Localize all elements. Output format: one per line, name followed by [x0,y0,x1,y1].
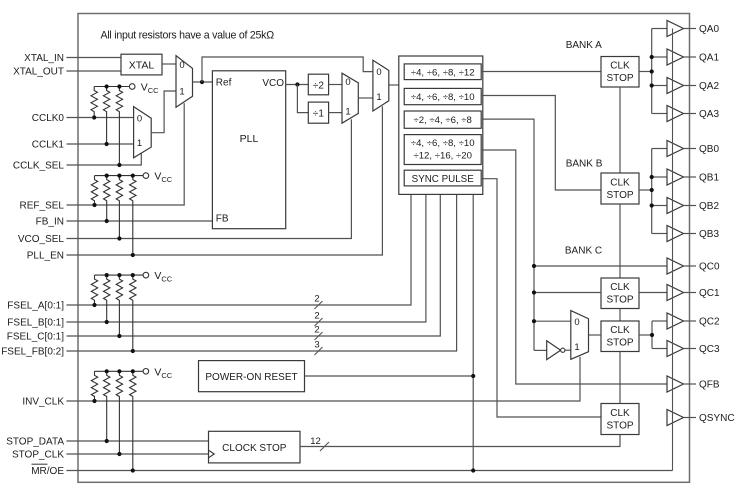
divider row B /4 /6 /8 /10 [404,88,481,104]
svg-text:XTAL_OUT: XTAL_OUT [13,67,64,78]
POWER-ON RESET block [199,361,305,392]
CLK STOP block bank A [601,57,639,88]
pin label XTAL_OUT [13,67,64,78]
resistor R-FSEL_A [91,275,97,305]
output buffer QC0 [667,258,696,274]
svg-text:FSEL_B[0:1]: FSEL_B[0:1] [7,318,64,329]
pin label QA1 [699,53,719,64]
wire /1 output to mux M2 input 1 [329,112,342,114]
output buffer QFB [667,376,696,392]
CLOCK STOP control block [209,431,301,463]
output buffer QA3 [667,106,696,122]
resistor R-FSEL_FB [130,275,136,351]
divider block /1 [308,102,328,123]
wire divider row A to CLK STOP A [481,71,601,73]
pin label QFB [699,380,720,391]
svg-text:SYNC PULSE: SYNC PULSE [412,174,475,185]
output buffer QA2 [667,78,696,94]
pin label FSEL_C[0:1] [7,332,64,343]
Vcc pull-up rail group 1 [94,82,159,96]
svg-text:QB1: QB1 [699,173,719,184]
svg-text:V: V [154,366,161,378]
pin label QB1 [699,173,719,184]
output buffer QA0 [667,21,696,37]
svg-text:Ref: Ref [216,77,232,88]
SYNC PULSE block [404,170,481,186]
wire mux M0 output to mux M1 input 1 [151,91,176,133]
wire FSEL_C to divider bank [67,194,441,336]
wire divider row C to bank C bus [481,119,534,350]
pin label QB2 [699,201,719,212]
wire CCLK_SEL to mux M0 select [67,152,142,165]
svg-text:QFB: QFB [699,380,720,391]
divider block /2 [308,74,328,95]
wire CLOCK STOP 12-bit stop bus [300,435,620,447]
svg-text:INV_CLK: INV_CLK [22,397,64,408]
resistor R-INV_CLK [91,371,97,401]
output buffer QB3 [667,226,696,242]
pin label VCO_SEL [18,234,65,245]
resistor R-FB_IN [104,176,110,221]
svg-text:CC: CC [161,371,172,380]
svg-text:QSYNC: QSYNC [699,413,735,424]
frequency divider bank outer box [399,56,483,194]
slash bus-width mark 3 on FSEL_FB [314,340,322,356]
resistor R-MR/OE [130,371,136,470]
wire XTAL_OUT to XTAL [67,70,122,72]
pin label QA3 [699,109,719,120]
wire CCLK0 to mux M0 input 0 [67,117,134,119]
svg-text:CC: CC [161,275,172,284]
pin label QA2 [699,81,719,92]
wire stop chain C2-QSYNC [619,352,621,404]
svg-text:BANK C: BANK C [565,246,602,257]
svg-text:QA2: QA2 [699,81,719,92]
svg-text:FSEL_C[0:1]: FSEL_C[0:1] [7,332,64,343]
resistor R-VCO_SEL [116,176,122,239]
Vcc pull-up rail group 2 [95,171,173,185]
wire MR/OE reset line [67,470,673,472]
wire STOP_DATA to CLOCK STOP [67,440,209,442]
bank B label [566,159,603,170]
svg-text:STOP: STOP [606,338,633,349]
output buffer QC3 [667,341,696,357]
Vcc pull-up rail group 3 [95,270,173,284]
pin label QB3 [699,229,719,240]
wire PLL bypass from Ref node to mux M3 input 0 [202,57,373,82]
resistor R-CCLK_SEL [116,87,122,166]
svg-text:QB0: QB0 [699,144,719,155]
svg-text:XTAL_IN: XTAL_IN [24,53,64,64]
node Ref junction [200,80,204,84]
junction dots group 4 [92,369,134,472]
output buffer QA1 [667,49,696,65]
svg-text:CLK: CLK [610,177,630,188]
pin label QSYNC [699,413,735,424]
svg-text:CCLK0: CCLK0 [32,113,65,124]
svg-text:FSEL_A[0:1]: FSEL_A[0:1] [7,301,64,312]
CLK STOP block QSYNC [601,404,639,435]
svg-text:÷2: ÷2 [313,81,324,92]
wire stop chain B-C1 [619,204,621,278]
CLK STOP block bank B [601,173,639,204]
slash bus-width mark 2 on FSEL_B [314,311,322,327]
bank A input bus [651,29,653,114]
svg-text:12: 12 [310,436,321,447]
pin label QC3 [699,344,720,355]
svg-text:V: V [154,171,161,183]
bank C label [565,246,602,257]
svg-text:0: 0 [345,77,350,88]
svg-text:CLK: CLK [610,408,630,419]
svg-text:V: V [154,270,161,282]
svg-text:QC1: QC1 [699,288,720,299]
svg-text:0: 0 [179,60,184,71]
output buffer QC1 [667,285,696,301]
CLK STOP block QC1 [601,278,639,309]
wire bank C bus to QC0 buffer [534,265,667,267]
pin label XTAL_IN [24,53,64,64]
output buffer QB2 [667,198,696,214]
junction dots bank C bus [532,264,536,323]
output buffer QC2 [667,313,696,329]
node QC2 QC3 junction [650,333,654,337]
svg-text:STOP: STOP [606,295,633,306]
svg-text:CLK: CLK [610,61,630,72]
svg-text:QC0: QC0 [699,262,720,273]
svg-text:FB_IN: FB_IN [36,217,64,228]
divider row FB /4../20 [404,135,481,165]
wire /2 output to mux M2 input 0 [329,84,342,86]
wire stop chain C1-C2 [619,309,621,322]
svg-text:CCLK1: CCLK1 [32,140,65,151]
wire CLK STOP QC1 to QC2... QC1 buffer [639,292,667,294]
svg-text:2: 2 [314,325,319,336]
svg-text:÷1: ÷1 [313,109,324,120]
bank A label [566,40,602,51]
svg-text:FSEL_FB[0:2]: FSEL_FB[0:2] [1,347,64,358]
wire CLK STOP QC2 output to QC2 QC3 buffers [639,321,667,349]
pin label QC0 [699,262,720,273]
Vcc pull-up rail group 4 [95,366,173,380]
wire PLL VCO output [286,84,309,86]
svg-text:QB2: QB2 [699,201,719,212]
divider row A /4 /6 /8 /12 [404,64,481,80]
wire FSEL_FB to divider bank [67,194,457,351]
resistor R-REF_SEL [91,176,97,205]
svg-text:CCLK_SEL: CCLK_SEL [13,161,65,172]
pin label FSEL_FB[0:2] [1,347,64,358]
wire FB_IN to PLL FB input [67,220,213,222]
wire POWER-ON RESET output to reset vertical [305,375,474,377]
svg-text:STOP_CLK: STOP_CLK [12,450,64,461]
wire MR/OE output-enable vertical through buffers [672,29,674,471]
junction dots bank A bus [650,55,654,88]
wire bank C bus to mux M4 input 0 [534,320,571,322]
svg-text:V: V [141,82,148,94]
wire divider row B to CLK STOP B [481,96,601,191]
junction dots bank B bus [650,175,654,208]
svg-text:MR/OE: MR/OE [31,466,64,477]
note: all input resistors 25k ohm [101,30,275,42]
svg-text:All input resistors have a val: All input resistors have a value of 25kΩ [101,30,275,42]
output buffer QSYNC [667,410,696,426]
svg-text:CLOCK STOP: CLOCK STOP [222,443,287,454]
pin label FSEL_B[0:1] [7,318,64,329]
svg-text:÷4, ÷6, ÷8, ÷10: ÷4, ÷6, ÷8, ÷10 [411,92,475,103]
svg-text:÷2, ÷4, ÷6, ÷8: ÷2, ÷4, ÷6, ÷8 [413,115,471,126]
wire VCO to divide-by-1 [297,85,308,113]
svg-text:1: 1 [376,92,381,103]
resistor R-PLL_EN [130,176,136,255]
svg-text:STOP: STOP [606,190,633,201]
svg-text:FB: FB [216,214,229,225]
svg-text:STOP: STOP [606,420,633,431]
wire SYNC PULSE to QSYNC CLK STOP [481,179,601,417]
svg-text:÷12, ÷16, ÷20: ÷12, ÷16, ÷20 [413,151,471,162]
resistor R-STOP_CLK [116,371,122,454]
node VCO junction [295,82,299,86]
pin label STOP_DATA [6,437,64,448]
svg-text:0: 0 [574,317,579,328]
wire inverter output to mux M4 input 1 [565,349,571,351]
svg-text:CC: CC [148,86,159,95]
wire CCLK1 to mux M0 input 1 [67,143,134,145]
output buffer QB0 [667,141,696,157]
junction dots group 3 [92,273,134,353]
wire mux M4 output to CLK STOP QC2 [589,334,602,336]
pin label REF_SEL [20,201,65,212]
pin label FB_IN [36,217,64,228]
outer boundary box of device [78,14,690,483]
output buffer QB1 [667,169,696,185]
wire CLK STOP B output to bank B bus [639,189,652,191]
svg-text:BANK A: BANK A [566,40,602,51]
slash bus-width mark 2 on FSEL_A [314,294,322,310]
svg-text:1: 1 [137,138,142,149]
wire mux M3 output to divider bank [389,84,399,86]
pin label CCLK_SEL [13,161,65,172]
mux M4 invert select [571,311,589,360]
wire STOP_CLK to CLOCK STOP clock input [67,453,209,455]
pin label QB0 [699,144,719,155]
svg-text:CLK: CLK [610,282,630,293]
svg-text:BANK B: BANK B [566,159,603,170]
svg-text:2: 2 [314,311,319,322]
junction dots group 2 [92,174,134,258]
wire mux M1 output to PLL Ref [193,81,213,83]
wire divider row FB to QFB buffer [481,150,667,384]
svg-text:XTAL: XTAL [129,60,155,72]
resistor R-STOP_DATA [104,371,110,441]
pin label QC1 [699,288,720,299]
wire PLL_EN to mux M3 select [67,106,383,255]
wire reset vertical from divider bank to MR line [472,194,474,470]
inverter U2 clock invert [547,341,565,360]
wire INV_CLK to mux M4 select [67,357,581,401]
pin label INV_CLK [22,397,64,408]
svg-text:÷4, ÷6, ÷8, ÷12: ÷4, ÷6, ÷8, ÷12 [411,67,475,78]
mux M0 CCLK select [134,107,152,158]
wire XTAL_IN to XTAL [67,57,122,59]
resistor R-FSEL_C [116,275,122,336]
PLL block U1 [212,71,285,229]
wire bank C bus to inverter input [534,349,547,351]
pin label CCLK1 [32,140,65,151]
resistor R-CCLK0 [91,87,97,118]
slash bus-width mark 2 on FSEL_C [314,325,322,341]
wire XTAL to mux M1 input 0 [162,63,176,65]
svg-text:STOP_DATA: STOP_DATA [6,437,64,448]
svg-text:QA3: QA3 [699,109,719,120]
svg-text:CC: CC [161,175,172,184]
wire FSEL_B to divider bank [67,194,426,322]
svg-text:3: 3 [314,340,319,351]
svg-text:QA0: QA0 [699,24,719,35]
wire mux M2 output to mux M3 input 1 [358,97,373,99]
pin label QC2 [699,317,720,328]
pin label QA0 [699,24,719,35]
wire CLK STOP A output to bank A bus [639,71,652,73]
pin label CCLK0 [32,113,65,124]
resistor R-CCLK1 [103,87,109,145]
svg-text:0: 0 [137,113,142,124]
wire VCO_SEL to mux M2 select [67,119,352,238]
wire bank C bus to CLK STOP QC1 [534,292,601,294]
svg-text:PLL_EN: PLL_EN [27,251,64,262]
resistor R-FSEL_B [104,275,110,322]
svg-text:÷4, ÷6, ÷8, ÷10: ÷4, ÷6, ÷8, ÷10 [411,138,475,149]
node MR reset junction [471,468,475,472]
divider row C /2 /4 /6 /8 [404,111,481,128]
bank B input bus [651,149,653,234]
svg-text:QC3: QC3 [699,344,720,355]
pin label FSEL_A[0:1] [7,301,64,312]
svg-text:QA1: QA1 [699,53,719,64]
slash bus-width mark 12 on stop bus [310,436,329,451]
svg-text:1: 1 [179,86,184,97]
svg-text:VCO: VCO [262,78,284,89]
svg-text:POWER-ON RESET: POWER-ON RESET [205,372,297,383]
svg-text:STOP: STOP [606,73,633,84]
mux M2 VCO divide select [342,73,358,123]
svg-text:CLK: CLK [610,325,630,336]
svg-text:QC2: QC2 [699,317,720,328]
XTAL oscillator block [121,54,162,75]
CLK STOP block QC2 QC3 [601,321,639,352]
pin label PLL_EN [27,251,64,262]
junction dots group 1 [92,84,121,167]
wire FSEL_A to divider bank [67,194,412,305]
mux M3 PLL bypass select [373,60,389,111]
wire REF_SEL to mux M1 select [67,103,185,205]
svg-text:QB3: QB3 [699,229,719,240]
svg-text:1: 1 [574,342,579,353]
svg-text:1: 1 [345,107,350,118]
node POR reset junction [471,374,475,378]
wire stop chain A-B [619,87,621,173]
pin label MR/OE with overline on MR [31,464,64,477]
svg-text:REF_SEL: REF_SEL [20,201,65,212]
svg-text:PLL: PLL [240,133,259,145]
svg-text:2: 2 [314,294,319,305]
pin label STOP_CLK [12,450,64,461]
svg-text:0: 0 [376,67,381,78]
svg-text:VCO_SEL: VCO_SEL [18,234,65,245]
mux M1 reference select [176,56,193,108]
